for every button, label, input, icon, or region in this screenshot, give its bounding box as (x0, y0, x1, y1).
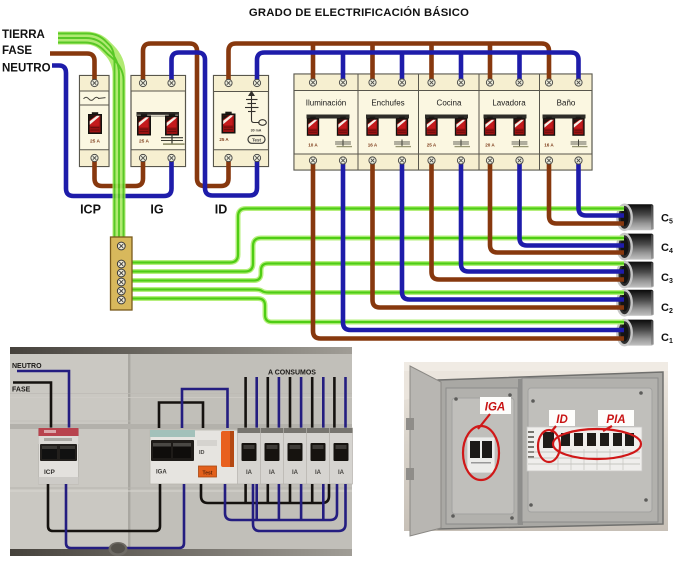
PIA 4 squiggle (512, 140, 529, 147)
svg-text:25 A: 25 A (90, 139, 100, 145)
svg-text:10 A: 10 A (308, 143, 318, 148)
terminals PIA top row (309, 79, 582, 86)
ICP switch lever (88, 112, 102, 134)
svg-text:FASE: FASE (12, 387, 31, 394)
wire PIA4 phase to C4 (490, 161, 624, 253)
wire PIA5 phase to C5 (549, 161, 624, 224)
ID switch lever (222, 112, 236, 134)
screws (451, 391, 648, 520)
PIA 3 squiggle (453, 140, 470, 147)
IG switch lever pole 2 (165, 114, 179, 136)
svg-text:IA: IA (338, 470, 345, 476)
photo1 IA breakers row (238, 428, 353, 484)
earth terminal strip (111, 237, 133, 310)
svg-text:Test: Test (252, 137, 262, 142)
PIA 2 switch levers (366, 117, 378, 136)
svg-text:16 A: 16 A (368, 143, 378, 148)
photo2 red annotation ID (538, 410, 575, 462)
photo: wall cabinet with labels (bottom right) (404, 362, 668, 536)
photo1 consumer wires (246, 377, 346, 428)
photo: interior of distribution panel (bottom left) (10, 347, 352, 556)
svg-text:IA: IA (292, 470, 299, 476)
terminal ID bottom left (225, 154, 232, 161)
PIA 3 tie bar (425, 115, 468, 119)
terminal IG bottom right (168, 154, 175, 161)
breaker ICP box (80, 76, 110, 167)
wire IG top right over to ID bottom right (172, 53, 258, 196)
svg-text:IA: IA (315, 470, 322, 476)
photo1 IGA and ID breaker block (150, 430, 247, 484)
wire earth strip to C4 (128, 238, 624, 272)
IG switch tie bar (137, 112, 180, 117)
svg-text:TIERRA: TIERRA (2, 29, 45, 41)
svg-text:IG: IG (150, 203, 163, 217)
breaker IG box (131, 76, 186, 167)
terminal IG bottom left (139, 154, 146, 161)
wire earth strip to C5 (128, 209, 624, 263)
breaker ID box (214, 76, 269, 167)
ICP trip-curve symbol (84, 97, 106, 100)
phase bus tap PIA2 (370, 44, 375, 84)
PIA bank box (294, 74, 592, 170)
svg-text:20 A: 20 A (485, 143, 495, 148)
photo2 DIN strip with ID and PIAs (527, 427, 642, 471)
svg-text:IA: IA (269, 470, 276, 476)
PIA 1 tie bar (307, 115, 350, 119)
photo1 wire IGA to ID blue loop (182, 389, 228, 428)
neutral bus tap PIA1 (341, 53, 346, 84)
photo1 ICP breaker (39, 428, 79, 484)
svg-text:16 A: 16 A (544, 143, 554, 148)
earth bundle from TIERRA to strip (58, 34, 124, 241)
phase bus tap PIA4 (488, 44, 493, 84)
terminal ICP bottom (91, 154, 98, 161)
svg-text:IA: IA (246, 470, 253, 476)
wire PIA5 neutral to C5 (579, 161, 625, 216)
svg-text:25 A: 25 A (139, 139, 149, 145)
svg-text:Iluminación: Iluminación (306, 99, 346, 108)
wire PIA2 phase to C2 (373, 161, 625, 308)
photo2 red annotation IGA (463, 397, 511, 480)
PIA 4 switch levers (484, 117, 496, 136)
right inner panel (522, 378, 658, 522)
wire earth strip to C2 (128, 290, 624, 293)
IG switch lever pole 1 (137, 114, 151, 136)
terminal IG top left (139, 79, 146, 86)
wire PIA3 phase to C3 (432, 161, 625, 280)
wire IG top left over to ID bottom left (143, 44, 229, 187)
terminal ICP top (91, 79, 98, 86)
cable gland C4 (617, 234, 673, 260)
svg-text:IGA: IGA (156, 470, 167, 476)
svg-text:25 A: 25 A (427, 143, 437, 148)
svg-text:Enchufes: Enchufes (371, 99, 404, 108)
PIA 4 tie bar (484, 115, 527, 119)
PIA 5 switch levers (543, 117, 555, 136)
svg-text:30 mA: 30 mA (251, 129, 262, 133)
cabinet door (410, 366, 441, 536)
svg-text:C2: C2 (661, 302, 673, 315)
svg-text:Baño: Baño (557, 99, 576, 108)
wire phase bus from ID top (229, 44, 550, 84)
PIA 1 switch levers (307, 117, 319, 136)
wire PIA2 neutral to C2 (402, 161, 624, 300)
photo1 wire IGA to ID black loop (159, 403, 203, 429)
svg-text:ID: ID (556, 414, 568, 426)
wire FASE input to ICP (50, 54, 95, 84)
terminal ID top right (253, 79, 260, 86)
wire PIA1 neutral to C1 (343, 161, 624, 331)
photo1 bottom wire blue U ICP to IGA (66, 484, 184, 548)
svg-text:NEUTRO: NEUTRO (2, 63, 51, 75)
svg-text:PIA: PIA (606, 414, 625, 426)
phase bus tap PIA3 (429, 44, 434, 84)
svg-text:C4: C4 (661, 242, 673, 255)
terminal ID top left (225, 79, 232, 86)
svg-text:Test: Test (203, 471, 213, 477)
svg-text:GRADO DE ELECTRIFICACIÓN BÁSIC: GRADO DE ELECTRIFICACIÓN BÁSICO (249, 6, 469, 19)
left inner panel (446, 388, 518, 524)
svg-text:ICP: ICP (44, 469, 56, 476)
svg-text:ICP: ICP (80, 203, 101, 217)
photo1 wire fase black (13, 383, 51, 429)
wire PIA3 neutral to C3 (461, 161, 624, 272)
svg-text:25 A: 25 A (219, 137, 229, 142)
svg-text:C5: C5 (661, 213, 673, 226)
wire ICP bottom to IG bottom left (95, 158, 144, 186)
wire NEUTRO input to IG bottom right (52, 66, 172, 197)
svg-text:IGA: IGA (485, 402, 505, 414)
ID test button (248, 136, 265, 144)
svg-text:C3: C3 (661, 272, 673, 285)
svg-text:ID: ID (199, 450, 205, 456)
photo1 bottom wire blue comb bus (225, 484, 346, 531)
photo1 bottom wire black comb bus (201, 484, 329, 503)
photo1 bottom wire black U ICP to IGA (48, 484, 160, 531)
cabinet body (438, 372, 663, 529)
neutral bus tap PIA3 (459, 53, 464, 84)
PIA 1 squiggle (335, 140, 352, 147)
wire neutral bus from ID top (257, 53, 579, 84)
photo2 IGA breaker (467, 437, 495, 473)
wire earth strip to C1 (128, 299, 624, 323)
photo1 knockout hole (109, 542, 128, 556)
svg-text:Lavadora: Lavadora (492, 99, 526, 108)
PIA 5 squiggle (571, 140, 588, 147)
terminal ID bottom right (253, 154, 260, 161)
cable gland C5 (617, 204, 673, 230)
wire earth strip to C3 (128, 264, 624, 281)
PIA 2 tie bar (366, 115, 409, 119)
PIA 2 squiggle (394, 140, 411, 147)
phase bus tap PIA1 (311, 44, 316, 84)
cable gland C1 (617, 320, 673, 346)
svg-text:C1: C1 (661, 332, 673, 345)
wire PIA4 neutral to C4 (520, 161, 625, 246)
cable gland C3 (617, 262, 673, 288)
terminals PIA bottom row (309, 157, 582, 164)
wire PIA1 phase to C1 (313, 161, 624, 339)
photo1 wire neutro blue (17, 371, 69, 428)
cable gland C2 (617, 290, 673, 316)
photo2 red annotation PIA (553, 410, 641, 459)
svg-text:A CONSUMOS: A CONSUMOS (268, 370, 316, 377)
neutral bus tap PIA4 (517, 53, 522, 84)
svg-text:Cocina: Cocina (437, 99, 462, 108)
PIA 3 switch levers (425, 117, 437, 136)
ID differential sensor symbol (245, 92, 266, 126)
PIA 5 tie bar (543, 115, 586, 119)
svg-text:NEUTRO: NEUTRO (12, 363, 42, 370)
IG neutral squiggle symbol (161, 134, 185, 144)
svg-text:FASE: FASE (2, 45, 32, 57)
neutral bus tap PIA2 (400, 53, 405, 84)
terminal IG top right (168, 79, 175, 86)
svg-text:ID: ID (215, 203, 228, 217)
